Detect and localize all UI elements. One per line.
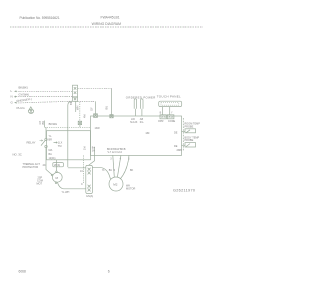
svg-text:Publication No. 5995516621: Publication No. 5995516621 [20,16,60,20]
dash chroma speckle overlays [10,27,203,103]
curved wire connector to pump [92,167,110,179]
svg-text:CODE: CODE [168,120,176,123]
long vertical wire x=68.5 [68,101,71,167]
motor connector block [86,165,93,193]
svg-text:BK/WH: BK/WH [49,122,58,126]
svg-text:12(4b): 12(4b) [49,157,56,160]
dashed vertical x=79.8 [79,102,81,121]
room temp thermostat [174,129,196,135]
pin X on x=95.5 [94,114,98,118]
wire G dashed [16,101,73,103]
svg-text:B: B [160,112,162,115]
vertical drop x=111.5 [111,88,113,116]
svg-text:3: 3 [110,158,112,161]
lid switch contact 2 [141,99,143,116]
dashed vertical right of box [182,118,184,151]
wire switch box to motor [56,160,58,172]
svg-text:PROBE: PROBE [185,139,194,142]
svg-text:C: C [81,183,83,186]
touch panel inner dashed [161,103,179,106]
touch panel wire 2 [169,107,171,115]
svg-text:2M8: 2M8 [177,148,183,152]
svg-text:BK: BK [130,169,134,172]
svg-text:FWA445LB1: FWA445LB1 [101,15,120,19]
touch panel connector box 2 [167,115,174,119]
svg-text:G: G [11,101,14,105]
wire into connector mid [46,163,52,175]
svg-text:Y: Y [171,112,173,115]
svg-text:MOT: MOT [37,183,43,186]
svg-text:PROBE: PROBE [185,125,194,128]
wire from box to motor connector [89,161,95,166]
svg-text:DE: DE [174,145,178,148]
svg-text:13W: 13W [95,127,101,130]
svg-text:V-7 12-0 12-0: V-7 12-0 12-0 [108,151,123,154]
svg-text:GY: GY [38,120,42,124]
svg-text:1C: 1C [80,170,83,173]
touch panel body [159,101,182,106]
svg-text:GN(A): GN(A) [86,195,93,198]
ground symbol [28,107,33,114]
motor switch box [47,131,91,160]
svg-text:L: L [11,89,13,93]
vertical drop x=95.5 from dashed run [95,102,97,116]
svg-text:ORDERED POWER: ORDERED POWER [126,96,156,100]
svg-text:BR: BR [49,139,53,142]
pump fan wire 2 [117,155,121,177]
connector CN1 lower [73,97,78,101]
svg-text:DE: DE [174,131,178,134]
svg-text:3A: 3A [92,149,95,152]
wire N dashed [16,96,73,98]
svg-text:PLUG: PLUG [17,106,26,110]
svg-text:4M: 4M [84,115,87,118]
svg-text:M: M [56,176,59,180]
dashed run from connector to x=111.5 [78,87,112,89]
wire inside box x=94.6 [94,147,96,161]
svg-text:R: R [113,169,115,172]
svg-text:OPR: OPR [158,120,164,123]
dashed run G to x=95.5 [78,101,96,103]
pump motor M2 [109,177,123,191]
pin X on x=111.5 [110,115,113,118]
relay drop wire [44,121,46,128]
svg-text:6068: 6068 [19,270,27,274]
connector drop wires [75,101,77,112]
svg-text:MA: MA [49,149,53,152]
svg-text:1M: 1M [84,147,87,150]
drive motor M1 [51,171,62,184]
header dashed separator [10,26,203,28]
svg-text:M-123: M-123 [130,121,138,124]
lid switch contact 1 [134,99,136,116]
svg-text:1M: 1M [145,131,150,135]
svg-text:M2: M2 [113,182,117,186]
wire L dashed [16,90,73,92]
svg-text:TM: TM [58,145,62,148]
dashed drop left of connector [83,155,85,183]
pump fan wire 3 [120,155,129,179]
wire into motor connector [68,167,86,169]
dashed wire y=127.3 relay to box [45,126,91,128]
svg-text:GN(GN&YL): GN(GN&YL) [16,97,32,103]
svg-text:6: 6 [108,270,110,274]
svg-text:YL WH: YL WH [62,191,70,194]
svg-text:N: N [11,94,13,98]
svg-text:BA: BA [49,153,53,156]
connector CN1 upper [73,85,78,97]
relay contact [40,138,48,147]
svg-text:GY(WH): GY(WH) [19,92,30,96]
svg-text:BU: BU [105,106,109,110]
svg-text:WIRING DIAGRAM: WIRING DIAGRAM [92,22,122,26]
svg-text:G26211970: G26211970 [173,189,195,193]
svg-text:PROTECTOR: PROTECTOR [23,166,39,169]
main control box [91,116,182,155]
svg-text:NO. 3C: NO. 3C [13,153,22,157]
svg-text:MOTOR: MOTOR [126,188,135,191]
svg-text:R-L: R-L [140,121,145,124]
svg-text:BA: BA [92,147,96,150]
svg-text:4C: 4C [43,164,46,167]
motor bottom wire [58,183,86,189]
touch panel connector box 1 [160,115,166,119]
body temp thermostat [174,143,196,149]
svg-text:RELAY: RELAY [27,141,36,145]
svg-text:BK(BK): BK(BK) [19,85,28,89]
pin X on x=79.8 [78,121,81,124]
svg-text:GY: GY [90,107,94,111]
svg-text:TOUCH PANEL: TOUCH PANEL [157,95,181,99]
touch panel wire 1 [161,107,163,115]
svg-text:WH: WH [76,106,80,110]
svg-text:BU: BU [109,169,113,172]
pump fan wire 1 [113,155,115,177]
